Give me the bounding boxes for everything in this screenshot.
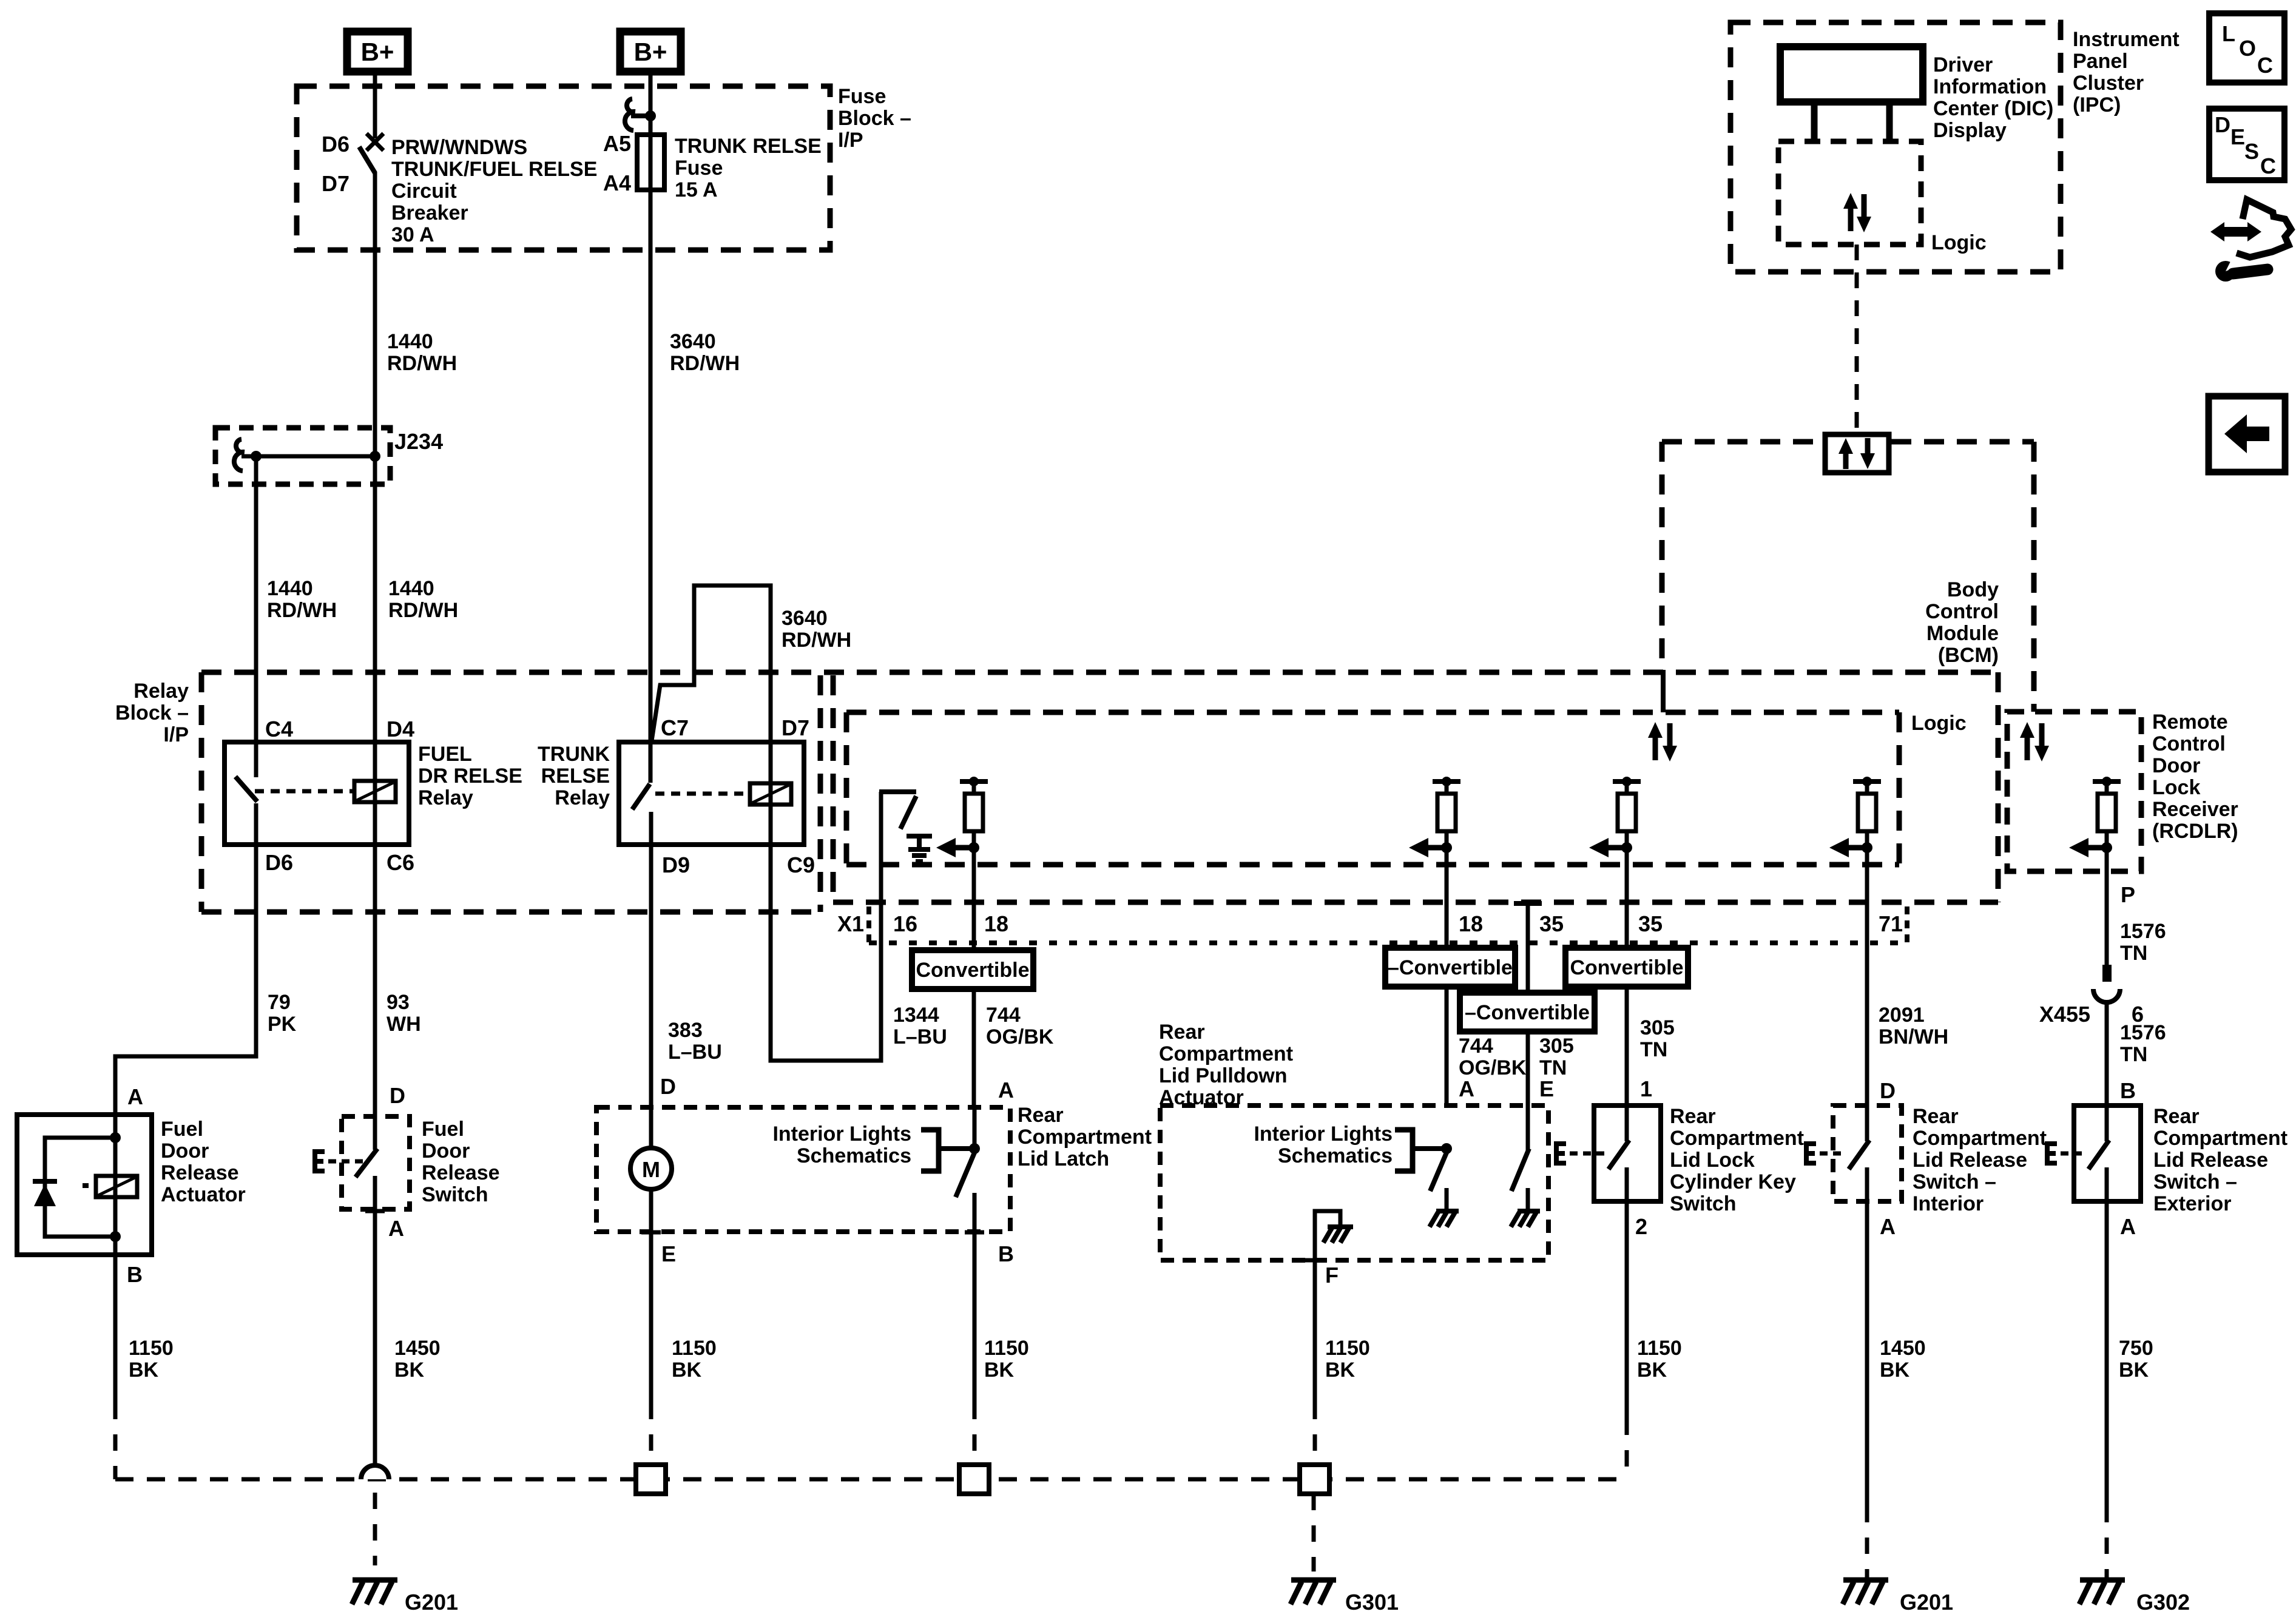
wire 1440 RD/WH left branch — [254, 456, 258, 742]
wire 1150 BK pin F — [1313, 1260, 1317, 1403]
svg-text:L–BU: L–BU — [668, 1041, 722, 1064]
IPC label — [2073, 28, 2180, 116]
svg-text:P: P — [2121, 882, 2135, 907]
svg-text:1440: 1440 — [267, 577, 313, 600]
svg-text:RD/WH: RD/WH — [267, 599, 337, 622]
svg-text:Interior Lights: Interior Lights — [772, 1122, 911, 1146]
svg-text:Lid Lock: Lid Lock — [1670, 1149, 1755, 1172]
svg-text:X455: X455 — [2039, 1002, 2090, 1027]
svg-text:BK: BK — [129, 1359, 159, 1382]
svg-text:Display: Display — [1933, 119, 2007, 142]
wire fuse to relay C7 — [649, 190, 653, 742]
wire label 1440 RD/WH right — [388, 577, 458, 622]
svg-text:Body: Body — [1947, 578, 1999, 601]
ground G201 left — [352, 1580, 458, 1615]
svg-text:Schematics: Schematics — [1278, 1144, 1393, 1167]
DIC legs — [1814, 102, 1889, 141]
DIC display rect — [1780, 47, 1923, 102]
svg-text:79: 79 — [268, 991, 291, 1014]
splice J234 dashed box — [215, 428, 390, 484]
BCM serial data arrows — [1648, 722, 1677, 761]
fuse F TRUNK RELSE — [603, 131, 664, 195]
mech symbol exterior switch — [2047, 1144, 2087, 1163]
svg-text:BK: BK — [1637, 1359, 1667, 1382]
svg-text:TN: TN — [2120, 942, 2147, 965]
svg-text:Switch –: Switch – — [1913, 1170, 1996, 1193]
svg-text:Door: Door — [422, 1139, 470, 1163]
svg-text:Switch: Switch — [422, 1183, 488, 1206]
latch label — [1018, 1104, 1152, 1170]
svg-text:Remote: Remote — [2152, 711, 2228, 734]
svg-text:Center (DIC): Center (DIC) — [1933, 97, 2053, 120]
svg-text:TRUNK/FUEL RELSE: TRUNK/FUEL RELSE — [391, 158, 597, 181]
svg-text:J234: J234 — [394, 429, 443, 454]
svg-text:A: A — [2120, 1214, 2136, 1239]
interior lights bracket left — [921, 1130, 974, 1171]
ground G301 — [1291, 1494, 1399, 1615]
wire label 750 BK — [2119, 1337, 2153, 1382]
svg-text:F: F — [1325, 1263, 1339, 1288]
wire label 93 WH — [387, 991, 421, 1036]
mech symbol E fds — [315, 1152, 325, 1171]
wire 1150 BK key switch — [1625, 1201, 1629, 1479]
wire 1450 BK fds A — [373, 1209, 377, 1467]
svg-text:PK: PK — [268, 1013, 297, 1036]
svg-text:A: A — [1880, 1214, 1896, 1239]
svg-text:B: B — [2120, 1078, 2136, 1103]
svg-text:35: 35 — [1539, 911, 1564, 936]
fuse block label — [838, 85, 911, 152]
svg-text:E: E — [2230, 124, 2245, 149]
wire 3640 RD/WH jog from C7 to D7 — [652, 586, 771, 742]
wire label 1150 BK motor — [672, 1337, 717, 1382]
svg-text:Compartment: Compartment — [1670, 1127, 1804, 1150]
wire label 2091 BN/WH — [1879, 1004, 1948, 1048]
svg-text:Switch –: Switch – — [2153, 1170, 2237, 1193]
option box Convertible right — [1565, 948, 1688, 987]
wire label 383 L-BU — [668, 1019, 722, 1064]
option box -Convertible upper — [1385, 948, 1515, 987]
BCM logic dashed box — [846, 712, 1899, 865]
ground G302 — [2079, 1580, 2190, 1615]
mech symbol key switch — [1556, 1144, 1606, 1163]
mech symbol interior switch — [1806, 1144, 1846, 1163]
wire label 305 TN left — [1539, 1035, 1574, 1079]
svg-text:Compartment: Compartment — [1159, 1042, 1293, 1065]
svg-text:OG/BK: OG/BK — [986, 1025, 1054, 1048]
breaker label — [391, 136, 597, 246]
wire 744 OG/BK pin18 left — [972, 902, 976, 1107]
svg-text:Exterior: Exterior — [2153, 1192, 2232, 1215]
svg-text:RD/WH: RD/WH — [670, 352, 740, 375]
svg-text:BN/WH: BN/WH — [1879, 1025, 1948, 1048]
svg-text:RD/WH: RD/WH — [782, 629, 851, 652]
wire label 1450 BK interior — [1880, 1337, 1926, 1382]
svg-text:C4: C4 — [265, 717, 293, 741]
interior switch label — [1913, 1105, 2047, 1215]
actuator label — [161, 1118, 246, 1206]
svg-text:Relay: Relay — [418, 786, 473, 809]
svg-text:Breaker: Breaker — [391, 201, 468, 224]
BCM resistor pin 18 right — [1409, 777, 1460, 902]
svg-text:2: 2 — [1635, 1214, 1647, 1239]
svg-text:1450: 1450 — [1880, 1337, 1926, 1360]
svg-text:BK: BK — [1325, 1359, 1356, 1382]
svg-text:S: S — [2244, 139, 2259, 164]
wire label 1576 TN lower — [2120, 1021, 2166, 1066]
svg-text:A: A — [388, 1216, 404, 1241]
wire breaker to J234 — [373, 172, 377, 456]
svg-text:TRUNK: TRUNK — [538, 743, 610, 766]
svg-text:Lid Release: Lid Release — [1913, 1149, 2027, 1172]
svg-text:Cluster: Cluster — [2073, 72, 2144, 95]
svg-text:Rear: Rear — [1018, 1104, 1064, 1127]
svg-text:M: M — [642, 1157, 660, 1182]
svg-text:1150: 1150 — [984, 1337, 1029, 1360]
svg-text:93: 93 — [387, 991, 410, 1014]
rear compartment lid latch dashed box — [596, 1107, 1010, 1232]
svg-text:1450: 1450 — [394, 1337, 441, 1360]
rear compartment lid pulldown actuator dashed box — [1160, 1106, 1548, 1260]
svg-text:BK: BK — [672, 1359, 702, 1382]
wire label 1150 BK latch — [984, 1337, 1029, 1382]
svg-text:Fuel: Fuel — [161, 1118, 203, 1141]
BCM outer dashed outline — [1662, 442, 2034, 712]
svg-text:DR RELSE: DR RELSE — [418, 765, 522, 788]
wire hop 1450 BK over bus — [361, 1465, 389, 1565]
ground bus dashed — [115, 1403, 1627, 1479]
svg-text:Module: Module — [1926, 622, 1999, 645]
svg-text:Relay: Relay — [133, 680, 189, 703]
wire 305 TN pin 35 left — [1526, 903, 1530, 1106]
wire label 744 OG/BK left — [986, 1004, 1054, 1048]
option box Convertible left — [912, 950, 1033, 989]
svg-text:Schematics: Schematics — [797, 1144, 911, 1167]
rear compartment lid release switch interior — [1833, 1106, 1902, 1239]
connector X1 strip — [869, 906, 1907, 943]
svg-text:Instrument: Instrument — [2073, 28, 2180, 51]
svg-text:Compartment: Compartment — [2153, 1127, 2288, 1150]
svg-text:Information: Information — [1933, 75, 2047, 98]
svg-text:Relay: Relay — [555, 786, 610, 809]
svg-text:Interior Lights: Interior Lights — [1254, 1122, 1393, 1146]
svg-text:G201: G201 — [1900, 1590, 1953, 1615]
svg-text:E: E — [1539, 1076, 1554, 1101]
wire 79 PK from relay D6 — [115, 845, 256, 1115]
relay TRUNK RELSE label — [538, 743, 610, 809]
svg-text:Logic: Logic — [1931, 231, 1987, 254]
fds label — [422, 1118, 500, 1206]
relay FUEL DR RELSE label — [418, 743, 522, 809]
svg-text:1: 1 — [1640, 1076, 1652, 1101]
svg-text:BK: BK — [984, 1359, 1015, 1382]
svg-text:35: 35 — [1638, 911, 1663, 936]
wire label 1150 BK left — [129, 1337, 174, 1382]
BCM resistor pin 71 — [1829, 777, 1881, 902]
option box -Convertible lower — [1460, 993, 1595, 1031]
interior lights bracket right — [1395, 1130, 1447, 1171]
svg-text:FUEL: FUEL — [418, 743, 472, 766]
wire pin16 through strip — [879, 902, 883, 1061]
pulldown switch A with ground — [1430, 1143, 1459, 1227]
diode in actuator — [33, 1179, 57, 1184]
svg-text:BK: BK — [394, 1359, 425, 1382]
svg-text:E: E — [661, 1241, 676, 1266]
svg-text:TRUNK RELSE: TRUNK RELSE — [675, 135, 822, 158]
svg-text:1150: 1150 — [129, 1337, 174, 1360]
svg-text:Release: Release — [161, 1161, 239, 1184]
svg-text:(BCM): (BCM) — [1938, 644, 1999, 667]
svg-text:TN: TN — [1640, 1038, 1667, 1061]
clip symbol in J234 — [234, 439, 245, 471]
wire label 1344 L-BU — [893, 1004, 947, 1048]
svg-text:D6: D6 — [322, 132, 349, 157]
icon connector wrench — [2210, 200, 2291, 282]
inline connector X455 — [2039, 965, 2144, 1106]
svg-text:Control: Control — [2152, 732, 2226, 755]
wire 750 BK exterior switch — [2105, 1201, 2109, 1578]
svg-text:RD/WH: RD/WH — [388, 599, 458, 622]
svg-text:G301: G301 — [1345, 1590, 1399, 1615]
DIC logic arrows — [1843, 193, 1871, 232]
svg-text:Convertible: Convertible — [916, 959, 1029, 982]
svg-text:Block –: Block – — [115, 701, 189, 724]
svg-text:C9: C9 — [787, 852, 815, 877]
svg-text:3640: 3640 — [670, 330, 716, 353]
serial data transceiver box — [1825, 434, 1889, 473]
svg-text:Door: Door — [2152, 754, 2200, 777]
svg-text:I/P: I/P — [838, 129, 863, 152]
svg-text:C6: C6 — [387, 850, 414, 875]
svg-text:Compartment: Compartment — [1018, 1126, 1152, 1149]
relay TRUNK RELSE — [619, 715, 815, 877]
wire label 1576 TN upper — [2120, 920, 2166, 965]
wire 1150 BK motor E — [649, 1232, 653, 1403]
svg-text:B: B — [127, 1262, 143, 1287]
wire label 1150 BK key switch — [1637, 1337, 1682, 1382]
fuel door release switch — [315, 1083, 410, 1241]
svg-text:C7: C7 — [661, 715, 689, 740]
fuse block I/P dashed box — [297, 86, 830, 250]
svg-text:1440: 1440 — [387, 330, 433, 353]
svg-text:1576: 1576 — [2120, 920, 2166, 943]
DIC label — [1933, 53, 2053, 142]
svg-text:3640: 3640 — [782, 607, 828, 630]
svg-text:71: 71 — [1879, 911, 1903, 936]
wire 383 L-BU from relay D9 — [649, 845, 653, 1148]
power symbol B+ left — [347, 32, 408, 72]
svg-text:TN: TN — [2120, 1043, 2147, 1066]
svg-text:D9: D9 — [662, 852, 690, 877]
svg-text:Control: Control — [1925, 600, 1999, 623]
svg-text:A5: A5 — [603, 131, 631, 156]
svg-text:Release: Release — [422, 1161, 500, 1184]
pulldown actuator label — [1159, 1021, 1293, 1109]
BCM ground switch for pin 16 — [879, 792, 932, 902]
wire 305 TN pin 35 right — [1625, 902, 1629, 1106]
svg-text:B+: B+ — [634, 38, 667, 66]
wire 2091 BN/WH pin 71 — [1865, 902, 1869, 1106]
circuit breaker CB — [322, 132, 383, 196]
RCDLR resistor — [2069, 777, 2121, 871]
svg-text:Cylinder Key: Cylinder Key — [1670, 1170, 1796, 1193]
svg-text:744: 744 — [1459, 1035, 1493, 1058]
svg-text:1150: 1150 — [672, 1337, 717, 1360]
svg-text:A: A — [1459, 1076, 1474, 1101]
wire label 3640 RD/WH top — [670, 330, 740, 375]
svg-text:1440: 1440 — [388, 577, 434, 600]
serial data dashed wire DIC to BCM — [1855, 245, 1859, 434]
svg-text:C: C — [2257, 53, 2273, 78]
svg-text:Block –: Block – — [838, 107, 911, 130]
wire B+ right to fuse — [649, 72, 653, 135]
splice wire J234 — [241, 451, 380, 462]
svg-text:744: 744 — [986, 1004, 1021, 1027]
svg-text:D7: D7 — [322, 171, 349, 196]
pulldown ground pin F — [1305, 1211, 1353, 1288]
svg-text:G302: G302 — [2136, 1590, 2190, 1615]
svg-text:–Convertible: –Convertible — [1465, 1001, 1590, 1024]
relay block label — [115, 680, 189, 746]
wire 93 WH from relay C6 — [373, 845, 377, 1116]
svg-text:B+: B+ — [361, 38, 394, 66]
fuse label — [675, 135, 822, 201]
bus junction square motor wire — [636, 1403, 666, 1494]
IPC dashed box — [1730, 22, 2061, 272]
coil in actuator — [96, 1176, 137, 1197]
svg-text:D: D — [390, 1083, 405, 1108]
svg-text:Fuse: Fuse — [675, 157, 723, 180]
svg-text:Logic: Logic — [1911, 712, 1967, 735]
power symbol B+ right — [620, 32, 681, 72]
svg-text:BK: BK — [1880, 1359, 1910, 1382]
svg-text:305: 305 — [1640, 1016, 1675, 1039]
icon LOC box — [2209, 13, 2284, 83]
svg-text:L: L — [2222, 21, 2235, 46]
svg-text:1150: 1150 — [1637, 1337, 1682, 1360]
svg-text:Door: Door — [161, 1139, 209, 1163]
key switch label — [1670, 1105, 1804, 1215]
svg-text:Driver: Driver — [1933, 53, 1993, 76]
svg-text:Actuator: Actuator — [161, 1183, 246, 1206]
svg-text:D: D — [1880, 1078, 1896, 1103]
ground G201 right — [1843, 1580, 1953, 1615]
svg-text:D7: D7 — [782, 715, 809, 740]
BCM middle dashed box — [833, 672, 1998, 902]
wire 1150 BK latch B — [973, 1239, 977, 1403]
svg-text:I/P: I/P — [163, 723, 189, 746]
wire label 3640 RD/WH jog — [782, 607, 851, 652]
exterior switch label — [2153, 1105, 2288, 1215]
svg-text:Circuit: Circuit — [391, 180, 457, 203]
wire label 305 TN right — [1640, 1016, 1675, 1061]
svg-text:PRW/WNDWS: PRW/WNDWS — [391, 136, 527, 159]
svg-text:D: D — [2215, 112, 2230, 137]
svg-text:(IPC): (IPC) — [2073, 93, 2121, 116]
svg-text:Switch: Switch — [1670, 1192, 1737, 1215]
BCM resistor pin 18 left — [936, 777, 988, 902]
svg-text:Lid Pulldown: Lid Pulldown — [1159, 1064, 1288, 1087]
rear compartment lid lock cylinder key switch — [1594, 1106, 1661, 1239]
svg-text:X1: X1 — [837, 911, 864, 936]
svg-text:750: 750 — [2119, 1337, 2153, 1360]
wire 1150 BK actuator B — [113, 1255, 118, 1403]
bus junction square latch wire — [959, 1403, 989, 1494]
wire label 744 OG/BK right — [1459, 1035, 1527, 1079]
svg-text:305: 305 — [1539, 1035, 1574, 1058]
svg-text:D4: D4 — [387, 717, 414, 741]
wire 1450 BK interior switch — [1865, 1201, 1869, 1578]
svg-text:383: 383 — [668, 1019, 703, 1042]
svg-text:Rear: Rear — [1670, 1105, 1716, 1128]
svg-text:18: 18 — [1459, 911, 1483, 936]
wire label 1150 BK pin F — [1325, 1337, 1370, 1382]
svg-text:BK: BK — [2119, 1359, 2149, 1382]
svg-text:L–BU: L–BU — [893, 1025, 947, 1048]
svg-text:(RCDLR): (RCDLR) — [2152, 820, 2238, 843]
wire B+ left to breaker — [373, 72, 377, 138]
svg-text:1344: 1344 — [893, 1004, 939, 1027]
icon back arrow box — [2209, 396, 2285, 472]
RCDLR dashed box — [2007, 712, 2141, 871]
BCM label — [1925, 578, 1999, 667]
svg-text:1150: 1150 — [1325, 1337, 1370, 1360]
DIC logic dashed box — [1778, 141, 1921, 245]
svg-text:A4: A4 — [603, 170, 631, 195]
RCDLR label — [2152, 711, 2238, 843]
interior lights schematics label right — [1254, 1122, 1393, 1167]
BCM resistor pin 35 right — [1589, 777, 1641, 902]
svg-text:RD/WH: RD/WH — [387, 352, 457, 375]
svg-text:A: A — [127, 1084, 143, 1109]
svg-text:Rear: Rear — [1913, 1105, 1959, 1128]
svg-text:Actuator: Actuator — [1159, 1086, 1244, 1109]
motor M in latch — [630, 1074, 676, 1266]
wire label 1440 RD/WH top — [387, 330, 457, 375]
svg-text:RELSE: RELSE — [541, 765, 610, 788]
wire label 1450 BK — [394, 1337, 441, 1382]
svg-text:G201: G201 — [405, 1590, 458, 1615]
svg-text:Rear: Rear — [2153, 1105, 2200, 1128]
wire 744 OG/BK pin18 right — [1445, 902, 1449, 1106]
pulldown switch E with ground — [1511, 1106, 1540, 1227]
rear compartment lid release switch exterior — [2074, 1106, 2141, 1239]
wire label 1440 RD/WH left — [267, 577, 337, 622]
latch switch — [956, 1078, 1014, 1266]
svg-text:18: 18 — [984, 911, 1008, 936]
svg-text:O: O — [2239, 36, 2256, 61]
clip symbol at fuse feed — [625, 99, 656, 130]
wire stub pin 35 left — [1514, 901, 1542, 906]
svg-text:30 A: 30 A — [391, 223, 434, 246]
svg-text:Convertible: Convertible — [1570, 956, 1683, 979]
svg-text:Lid Latch: Lid Latch — [1018, 1147, 1109, 1170]
bus junction square pin F wire — [1300, 1403, 1329, 1494]
svg-text:–Convertible: –Convertible — [1388, 956, 1513, 979]
svg-text:D6: D6 — [265, 850, 293, 875]
svg-text:Fuel: Fuel — [422, 1118, 464, 1141]
icon DESC box — [2209, 109, 2284, 180]
relay FUEL DR RELSE — [225, 717, 414, 875]
wire C9 to BCM pin 16 — [771, 794, 881, 1061]
svg-text:A: A — [998, 1078, 1014, 1102]
svg-text:Lock: Lock — [2152, 776, 2200, 799]
wire label 79 PK — [268, 991, 297, 1036]
svg-text:Rear: Rear — [1159, 1021, 1205, 1044]
svg-text:D: D — [660, 1074, 676, 1099]
interior lights schematics label left — [772, 1122, 911, 1167]
svg-text:15 A: 15 A — [675, 178, 718, 201]
